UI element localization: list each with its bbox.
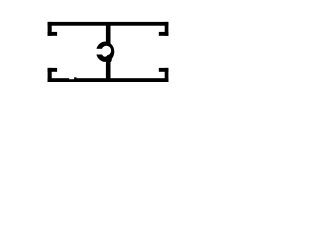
top flange bar (48, 22, 169, 26)
web-to-boss lower fillet (107, 57, 112, 63)
bottom-left hook foot (48, 68, 58, 72)
screw boss outer ring (96, 42, 114, 62)
top-right hook leg (165, 22, 169, 36)
bottom-right hook foot (159, 68, 169, 72)
top-left hook foot (48, 32, 58, 36)
screw boss opening slot (white) (94, 49, 110, 55)
top-left hook leg (48, 22, 52, 36)
gasket retaining nub (74, 77, 76, 79)
top-right hook foot (159, 32, 169, 36)
gasket notch in bottom flange (white) (69, 77, 74, 79)
central web (106, 25, 111, 79)
screw boss bore lower-left lobe (white) (102, 50, 108, 56)
bottom-left hook leg (48, 68, 52, 82)
screw boss bore (white) (102, 46, 111, 55)
bottom flange bar (48, 78, 169, 82)
bottom-right hook leg (165, 68, 169, 82)
